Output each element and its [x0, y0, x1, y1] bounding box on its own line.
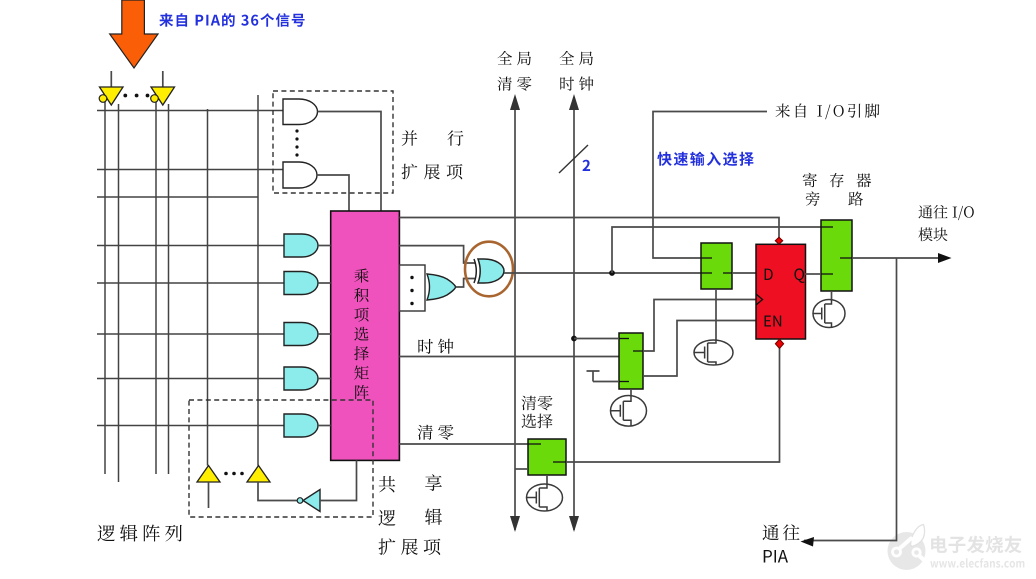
transistor cell E4: [813, 300, 845, 328]
wire matrix to xor input1: [399, 246, 475, 263]
wire column C2: [118, 104, 120, 482]
wire xor node to bypass mux: [612, 227, 821, 273]
stub vcc tee: [587, 371, 620, 382]
matrix label char 积: [354, 288, 368, 302]
dff clear diamond: [775, 339, 783, 348]
label register l1: [803, 173, 871, 188]
matrix label char 选: [354, 327, 368, 341]
dff label EN: [765, 316, 782, 327]
arrowhead global clear top: [510, 94, 520, 110]
wire clear mux to cell E3: [546, 475, 548, 485]
ellipsis dots expander: [295, 129, 298, 132]
input buffer T1: [100, 87, 124, 105]
label clear select l1: [522, 396, 553, 411]
wire fast mux to cell E1: [715, 289, 717, 340]
arrowhead global clear bottom: [510, 516, 520, 532]
wire global clock vertical: [573, 97, 575, 530]
wire xor output to fast input mux: [504, 272, 701, 274]
label expander term top: [402, 164, 463, 180]
wire row R2: [97, 169, 283, 171]
wire clock mux to cell E2: [630, 389, 632, 398]
dff label Q: [794, 268, 804, 283]
label global clock l2: [560, 76, 593, 90]
and-gate G4: [284, 367, 318, 390]
matrix label char 乘: [354, 269, 368, 283]
wire clear mux to dff clear: [566, 348, 780, 462]
label global clock l1: [560, 51, 594, 65]
label parallel 2: [448, 130, 464, 146]
mux clear pins: [528, 443, 541, 445]
wire global clear to mux: [515, 468, 528, 470]
wire G1 output: [318, 245, 331, 247]
wire clear pterm: [399, 443, 528, 445]
mux fast input pins: [701, 257, 712, 259]
ellipsis dots between T1 T2: [123, 94, 127, 98]
wire Q to bypass mux: [805, 273, 821, 275]
mux fast input: [701, 243, 732, 289]
product term select matrix: [331, 211, 400, 460]
arrowhead global clock top: [569, 94, 579, 110]
wire row R7: [97, 378, 284, 380]
wire G5 output: [318, 425, 331, 427]
matrix label char 矩: [354, 366, 369, 380]
and-gate G1: [284, 234, 318, 257]
label clear pterm: [418, 425, 454, 440]
input buffer T2: [151, 87, 175, 105]
wire row R6: [97, 333, 284, 335]
label clear select l2: [522, 414, 553, 429]
ellipsis dots between T3 T4: [224, 472, 228, 476]
watermark text 1: [931, 536, 1022, 554]
shared expander dashed box: [189, 400, 373, 517]
mux bypass pins: [821, 226, 833, 228]
wire fast mux to D: [732, 272, 756, 274]
bus slash mark: [559, 145, 588, 173]
label fast input select: [657, 152, 754, 166]
wire G3 output: [318, 333, 331, 335]
wire row R5: [97, 282, 284, 284]
dff clock triangle: [756, 294, 763, 305]
and-gate G5: [284, 414, 318, 437]
wire global clock to mux: [574, 338, 619, 340]
label logic array: [98, 525, 182, 542]
watermark text 2: [930, 558, 1024, 568]
mux clear select: [528, 439, 566, 475]
wire column C5: [207, 109, 209, 466]
label to pia l2: [764, 550, 788, 563]
dff preset diamond: [775, 237, 782, 244]
label to pia l1: [763, 524, 800, 540]
arrowhead global clock bottom: [569, 516, 579, 532]
input arrow from PIA: [110, 0, 158, 68]
mux clock pins: [619, 338, 629, 340]
label shared 2: [425, 474, 442, 491]
matrix label char 项: [354, 308, 368, 322]
wire or output to xor input2: [456, 279, 475, 288]
label bypass l2a: [806, 191, 820, 206]
wire from io pin: [653, 112, 767, 259]
wire inverter input from matrix: [320, 460, 357, 500]
programmable invert ellipse: [465, 242, 513, 297]
and-gate G2: [284, 272, 318, 295]
xor-gate: [478, 259, 504, 283]
label to io module l2: [918, 227, 947, 241]
wire row R4: [97, 245, 284, 247]
wire bypass mux to cell E4: [831, 291, 833, 300]
wire input stub T1: [110, 71, 112, 87]
wire below T3: [208, 482, 210, 508]
wire matrix to preset: [399, 218, 779, 238]
label parallel 1: [402, 130, 418, 146]
label to io module l1: [919, 205, 974, 220]
dff register: [756, 244, 806, 339]
parallel expander dashed box: [273, 91, 393, 193]
wire row R1: [97, 110, 283, 112]
and-gate G3: [284, 323, 318, 346]
wire G4 output: [318, 378, 331, 380]
feedback buffer T3: [197, 466, 220, 483]
mux clock select: [619, 333, 643, 389]
title from PIA 36 signals: [159, 13, 304, 27]
wire column C6: [257, 95, 259, 466]
watermark logo: [888, 525, 927, 571]
wire row R3: [97, 196, 258, 198]
and-gate A2 parallel expander: [283, 162, 317, 188]
transistor cell E3: [527, 484, 563, 511]
wire G2 output: [318, 282, 331, 284]
wire clock mux to dff en: [643, 321, 756, 377]
mux register bypass: [821, 220, 852, 291]
wire global clear vertical: [514, 97, 516, 530]
wire column C4: [168, 104, 170, 474]
wire feedback to PIA: [804, 258, 897, 541]
label logic 2: [425, 509, 442, 525]
node xor output junction: [609, 270, 615, 276]
wire input stub T2: [162, 71, 164, 87]
or-gate product sum: [427, 274, 456, 300]
label shared 1: [379, 476, 396, 492]
wire T4 input from inverter: [258, 482, 297, 501]
dff label D: [765, 269, 773, 280]
wire clock pterm: [399, 356, 619, 358]
label clock pterm: [418, 339, 453, 354]
wire column C3: [155, 101, 157, 474]
label from io pin: [776, 104, 880, 120]
inverter shared expander: [303, 490, 320, 512]
transistor cell E2: [611, 396, 647, 427]
wire clock mux to dff clk: [643, 300, 756, 352]
label global clear l1: [498, 51, 532, 65]
product term box with dots: [400, 265, 426, 311]
label expander term bottom: [379, 538, 441, 555]
label logic 1: [378, 510, 395, 526]
node global clock junction: [571, 336, 577, 342]
wire output to io module: [852, 257, 948, 259]
transistor cell E1: [694, 340, 733, 365]
wire column C1: [104, 101, 106, 474]
arrowhead to io module: [938, 253, 952, 263]
label global clear l2: [498, 77, 532, 91]
arrowhead to PIA: [801, 537, 815, 547]
ellipsis dots OR input: [410, 276, 413, 279]
feedback buffer T4: [247, 466, 270, 483]
matrix label char 择: [354, 346, 369, 360]
matrix label char 阵: [355, 385, 369, 399]
and-gate A1 parallel expander: [283, 99, 318, 125]
wire A2 output to matrix: [317, 175, 349, 211]
wire A1 output to matrix: [318, 112, 382, 212]
label bus width 2: [583, 160, 591, 171]
wire row R8: [97, 425, 284, 427]
label bypass l2b: [848, 192, 863, 206]
